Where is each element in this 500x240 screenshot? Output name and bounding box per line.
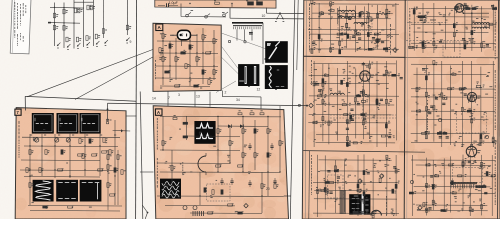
svg-text:2: 2 bbox=[225, 91, 227, 95]
svg-text:10: 10 bbox=[262, 14, 266, 18]
svg-text:3: 3 bbox=[178, 93, 180, 97]
svg-text:9: 9 bbox=[130, 40, 132, 44]
svg-text:14: 14 bbox=[152, 97, 156, 101]
svg-text:13: 13 bbox=[196, 95, 200, 99]
svg-text:12: 12 bbox=[257, 88, 261, 92]
svg-text:34: 34 bbox=[236, 98, 240, 102]
svg-text:1,0µF: 1,0µF bbox=[169, 1, 179, 5]
